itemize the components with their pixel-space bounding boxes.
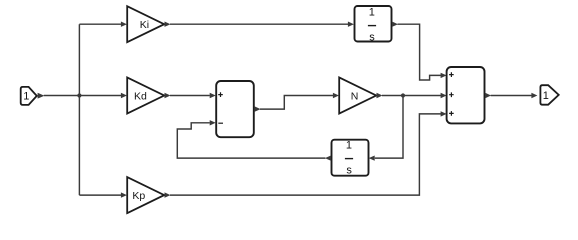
wire vertical branch [78,24,80,195]
arrow into integrator2 right side [369,156,375,161]
arrow into integrator1 [348,22,354,27]
wire branch to Kp [79,194,121,196]
N output arrow [377,93,383,98]
svg-text:s: s [346,165,352,177]
arrow into gain N [333,93,339,98]
Kd output arrow [165,93,171,98]
integrator2 output arrow left [325,156,331,161]
wire branch to Ki [79,23,121,25]
Ki output arrow [165,22,171,27]
wire Kp to sum2 input3 [170,114,441,195]
wire integrator1 to sum2 input1 [398,24,442,80]
outport 1 [540,85,558,105]
arrow into sum2 input2 [441,93,447,98]
wire inport to Kd [44,95,121,97]
integrator2 block 1/s flipped [332,140,369,177]
svg-text:Ki: Ki [140,19,149,31]
svg-text:Kd: Kd [134,90,147,102]
Kp output arrow [165,192,171,197]
svg-text:1: 1 [346,140,352,152]
integrator1 block 1/s [355,6,392,44]
node junction N output [401,93,405,97]
arrow into sum1 minus [210,120,216,125]
gain Ki [127,6,164,42]
sum block sum2 [447,67,485,123]
svg-text:1: 1 [23,90,29,102]
wire Ki to integrator1 [170,23,348,25]
sum2 output arrow [485,93,491,98]
wire sum2 to outport [491,95,532,97]
sum1 output arrow [255,106,261,111]
arrow into sum1 plus [210,93,216,98]
wire N junction down to integrator2 [375,96,403,159]
svg-text:s: s [369,32,375,44]
svg-text:1: 1 [543,90,549,102]
gain N [339,78,376,114]
inport output arrow [38,93,45,99]
wire Kd to sum1 [170,95,210,97]
arrow into Ki [121,22,127,27]
arrow into outport [531,93,537,98]
gain Kp [127,177,164,213]
integrator1 output arrow [392,22,398,27]
svg-text:Kp: Kp [132,190,145,202]
svg-text:N: N [351,90,359,102]
arrow into Kp [121,192,127,197]
sum block sum1 [216,81,254,137]
wire N to sum2 input2 [382,95,441,97]
svg-text:1: 1 [369,7,375,19]
wire integrator2 feedback to sum1 minus [177,123,325,158]
wire sum1 to gain N [260,96,333,110]
inport 1 [21,87,37,105]
gain Kd [127,78,164,114]
arrow into sum2 input3 [441,111,447,116]
arrow into Kd [121,93,127,98]
arrow into sum2 input1 [441,73,447,78]
node junction main [77,93,81,97]
